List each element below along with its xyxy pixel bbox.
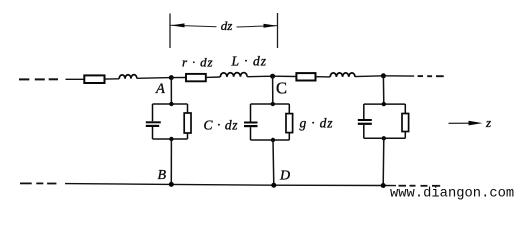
- node C junction dot: [270, 74, 275, 79]
- capacitor C3 (shunt, unlabeled): [358, 104, 372, 138]
- wire top-right dashed lead-out: [418, 75, 444, 77]
- shunt branch 2: bottom junction dot: [271, 138, 275, 142]
- shunt branch 2: wire rail down to node D: [272, 140, 275, 185]
- svg-text:A: A: [155, 81, 165, 97]
- wire r·dz to L·dz: [206, 76, 221, 78]
- shunt branch 3: bottom junction dot: [382, 136, 386, 140]
- wire top-left solid segment: [66, 78, 85, 80]
- resistor r·dz (series): [186, 74, 206, 81]
- shunt branch 1: top junction dot: [169, 102, 173, 106]
- svg-text:dz: dz: [221, 18, 233, 33]
- dimension line left segment with arrowhead: [171, 23, 217, 27]
- dimension right extension bar (above node C): [277, 13, 279, 48]
- shunt branch 2: wire node C down to rail: [272, 76, 274, 104]
- node E (third top junction) dot: [381, 73, 386, 78]
- wire L1 to node A: [137, 77, 171, 80]
- inductor L3 (series, unlabeled, 4 humps): [330, 73, 355, 77]
- shunt branch 1: bottom rail wire: [153, 138, 188, 140]
- capacitor C1 (shunt, unlabeled): [146, 104, 161, 139]
- resistor R3 (series, unlabeled): [296, 73, 315, 80]
- node F (third bottom junction) dot: [381, 183, 386, 188]
- node A junction dot: [169, 75, 174, 80]
- resistor R1 (series, unlabeled): [84, 75, 104, 83]
- svg-text:r · dz: r · dz: [182, 55, 213, 70]
- wire R3 to L3: [316, 76, 331, 78]
- svg-text:C · dz: C · dz: [204, 117, 239, 132]
- shunt branch 1: top rail wire: [153, 103, 188, 105]
- shunt branch 1: bottom junction dot: [169, 137, 173, 141]
- shunt branch 3: top junction dot: [382, 102, 386, 106]
- wire bottom-left dashed lead-in: [20, 182, 56, 184]
- wire L3 to node E: [355, 75, 383, 78]
- shunt branch 2: top rail wire: [251, 103, 290, 105]
- svg-text:g · dz: g · dz: [300, 115, 334, 130]
- svg-text:z: z: [485, 115, 491, 130]
- svg-text:L · dz: L · dz: [231, 54, 267, 69]
- wire node C to resistor R3: [273, 75, 297, 77]
- wire bottom conductor: [65, 184, 396, 186]
- resistor G3 (shunt, unlabeled): [402, 104, 409, 138]
- dimension line right segment with arrowhead: [237, 24, 278, 28]
- dimension left extension bar (above node A): [169, 14, 171, 49]
- svg-text:C: C: [276, 78, 287, 97]
- shunt branch 3: wire node E down to rail: [382, 76, 384, 104]
- node D junction dot: [271, 183, 276, 188]
- wire L·dz to node C: [247, 75, 273, 78]
- inductor L1 (series, unlabeled, 3 humps): [119, 75, 137, 79]
- shunt branch 2: bottom rail wire: [251, 139, 290, 141]
- svg-text:www.diangon.com: www.diangon.com: [390, 185, 514, 201]
- shunt branch 3: wire rail down to node F: [382, 138, 385, 185]
- inductor L·dz (series, 4 humps): [220, 73, 247, 77]
- shunt branch 1: wire rail down to node B: [170, 139, 172, 184]
- node B junction dot: [169, 182, 174, 187]
- wire node E to right: [383, 75, 414, 77]
- wire node A to resistor r·dz: [171, 77, 186, 79]
- wire bottom-right dashed lead-out: [399, 185, 441, 187]
- capacitor C2 (shunt C·dz): [244, 104, 258, 140]
- wire top-left dashed lead-in: [19, 78, 58, 80]
- svg-text:B: B: [158, 168, 167, 183]
- resistor G2 (shunt g·dz): [286, 104, 293, 140]
- shunt branch 3: top rail wire: [364, 103, 406, 105]
- shunt branch 3: bottom rail wire: [364, 137, 406, 139]
- shunt branch 1: wire node A down to rail: [170, 78, 172, 104]
- wire R1 to L1: [105, 78, 120, 80]
- arrow z (propagation direction): [449, 121, 483, 126]
- shunt branch 2: top junction dot: [271, 102, 275, 106]
- resistor G1 (shunt, unlabeled): [184, 104, 191, 139]
- svg-text:D: D: [279, 169, 290, 184]
